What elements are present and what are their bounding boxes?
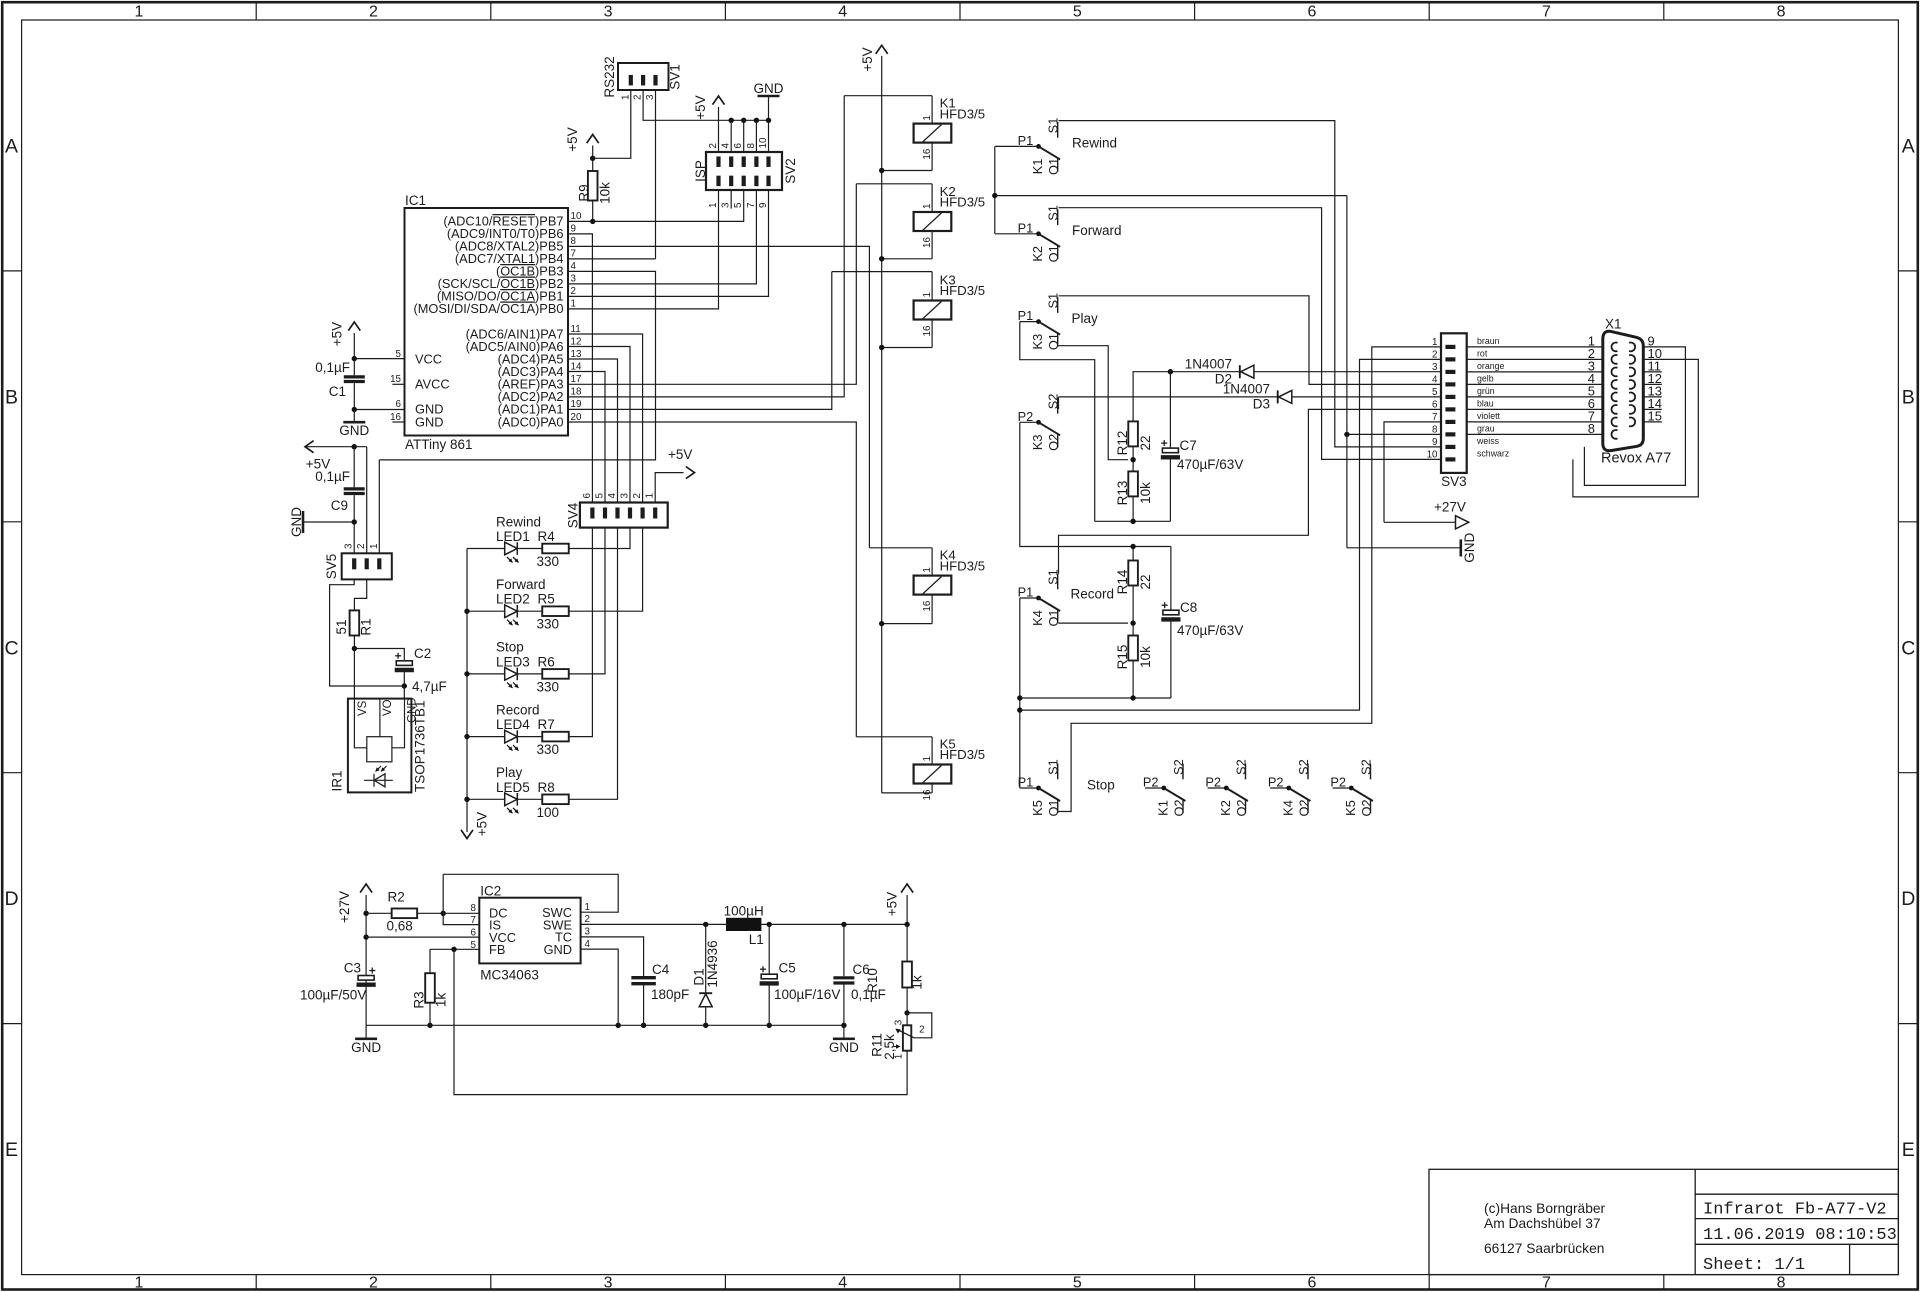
wire ISP pin1 to PB0: [568, 190, 719, 309]
svg-text:1: 1: [1432, 337, 1437, 348]
svg-text:+5V: +5V: [860, 47, 875, 71]
svg-text:D: D: [4, 888, 18, 910]
svg-text:5: 5: [471, 940, 477, 951]
svg-text:D3: D3: [1253, 397, 1270, 412]
wire Play S1 to SV3 pin4: [1059, 296, 1442, 385]
capacitor C4 180pF: [631, 976, 656, 979]
IR1 detector box: [367, 737, 392, 762]
svg-text:GND: GND: [544, 942, 572, 957]
svg-text:AVCC: AVCC: [415, 377, 450, 392]
svg-text:GND: GND: [754, 81, 784, 96]
svg-text:R15: R15: [1115, 645, 1130, 670]
svg-text:1k: 1k: [434, 993, 449, 1008]
resistor R6 330: [542, 669, 569, 679]
svg-text:4: 4: [607, 493, 618, 499]
svg-text:P2: P2: [1143, 775, 1159, 790]
resistor R2 0,68: [366, 912, 391, 914]
relay contact K3 Play pole1: [1020, 321, 1039, 323]
svg-text:RS232: RS232: [602, 56, 617, 97]
svg-text:8: 8: [746, 143, 757, 149]
node D2 net C7: [1168, 369, 1173, 374]
svg-text:11.06.2019 08:10:53: 11.06.2019 08:10:53: [1703, 1226, 1897, 1245]
node D1 bottom: [703, 1023, 708, 1028]
svg-text:9: 9: [1432, 437, 1437, 448]
svg-text:P2: P2: [1268, 775, 1284, 790]
svg-text:C1: C1: [329, 384, 346, 399]
relay coil K4 HFD3/5: [914, 576, 952, 595]
svg-text:10: 10: [758, 137, 769, 148]
svg-text:O2: O2: [1296, 799, 1311, 816]
svg-text:16: 16: [922, 237, 933, 248]
svg-text:R4: R4: [538, 529, 556, 544]
svg-text:HFD3/5: HFD3/5: [940, 106, 985, 121]
wire X1 pin9 loop to SV3 pin9 net: [1584, 347, 1685, 486]
node C6 bottom: [841, 1023, 846, 1028]
svg-text:3: 3: [585, 927, 591, 938]
svg-text:S2: S2: [1233, 759, 1248, 775]
svg-text:16: 16: [922, 600, 933, 611]
svg-text:violett: violett: [1477, 411, 1501, 421]
svg-text:2: 2: [356, 544, 367, 549]
svg-text:1N4936: 1N4936: [705, 940, 720, 987]
resistor R15 10k: [1128, 636, 1138, 661]
relay contact K4 pole2 stub: [1270, 787, 1289, 789]
node LED bus LED4: [464, 734, 469, 739]
svg-text:P2: P2: [1330, 775, 1346, 790]
svg-text:K4: K4: [1030, 610, 1045, 626]
wire PB6 to SV4 pin6: [568, 234, 592, 503]
connector SV4: [580, 503, 668, 528]
wire P1 bus K1-K2: [994, 146, 996, 233]
svg-text:grün: grün: [1477, 386, 1495, 396]
svg-text:13: 13: [571, 349, 582, 360]
svg-text:GND: GND: [406, 697, 418, 723]
diode D3 1N4007: [1059, 396, 1442, 398]
svg-text:IC2: IC2: [480, 884, 501, 899]
svg-text:3: 3: [894, 1019, 905, 1025]
svg-text:1k: 1k: [910, 975, 925, 990]
svg-text:Forward: Forward: [1072, 223, 1122, 238]
svg-text:C8: C8: [1180, 600, 1197, 615]
svg-text:16: 16: [922, 789, 933, 800]
IC IC2 MC34063: [479, 898, 580, 964]
wire P1 K1 stub: [995, 145, 1020, 147]
wire +5V corner to SV5 pin2: [366, 447, 368, 554]
svg-text:Play: Play: [496, 765, 523, 780]
node LED bus LED2: [464, 609, 469, 614]
svg-text:O1: O1: [1046, 158, 1061, 175]
svg-text:ISP: ISP: [693, 160, 708, 182]
svg-text:SV4: SV4: [566, 502, 581, 528]
wire SV3 pin8 grau: [1347, 433, 1441, 435]
supply +5V arrow at C1: [353, 333, 355, 359]
svg-text:X1: X1: [1605, 317, 1622, 332]
IC1 pin 16 stub: [392, 421, 404, 423]
IC1 overlines: [492, 215, 535, 303]
connector X1 Revox A77 outline: [1603, 331, 1644, 450]
LED anode bus +5V: [466, 549, 468, 833]
svg-text:8: 8: [1588, 421, 1595, 436]
IR1 light arrows: [376, 766, 382, 772]
node R14-R15: [1132, 586, 1134, 636]
trimmer R11 2,5k: [906, 1013, 908, 1025]
wire P1 K2 stub: [995, 233, 1020, 235]
svg-text:1: 1: [585, 902, 590, 913]
svg-text:3: 3: [620, 493, 631, 499]
svg-text:K5: K5: [1030, 800, 1045, 816]
node D1 top: [703, 922, 708, 927]
capacitor C7 470uF/63V: [1169, 372, 1171, 448]
wire Play P1 to C7 rail: [1020, 322, 1095, 522]
ground under C3: [355, 1038, 377, 1041]
svg-text:2: 2: [633, 95, 644, 100]
svg-text:R12: R12: [1115, 431, 1130, 456]
X1 pin arcs right: [1629, 343, 1635, 352]
wire PA7 to SV4 pin2: [568, 334, 643, 503]
wire P1 bus to SV3 pin8 riser: [995, 195, 1347, 197]
svg-text:66127 Saarbrücken: 66127 Saarbrücken: [1484, 1241, 1604, 1256]
node C6 top: [841, 922, 846, 927]
node SV3 pin8 P-bus: [1344, 432, 1349, 437]
svg-text:51: 51: [334, 619, 349, 634]
wire FB pin5: [430, 948, 479, 950]
svg-text:1: 1: [134, 4, 143, 21]
svg-text:O1: O1: [1046, 245, 1061, 262]
svg-text:E: E: [5, 1139, 18, 1161]
svg-text:7: 7: [571, 249, 576, 260]
svg-text:(ADC0)PA0: (ADC0)PA0: [498, 414, 564, 429]
title block: [1429, 1169, 1898, 1274]
wire Play O1 to R12-R13 node: [1059, 346, 1129, 460]
inductor L1 100uH: [726, 918, 761, 931]
svg-text:100µF/16V: 100µF/16V: [774, 987, 840, 1002]
svg-text:VS: VS: [357, 700, 369, 716]
svg-text:10k: 10k: [1138, 646, 1153, 668]
svg-text:R5: R5: [538, 592, 555, 607]
R11 wiper loop: [907, 1013, 932, 1038]
node VCC tap: [363, 934, 368, 939]
svg-text:1: 1: [369, 544, 380, 549]
svg-text:R14: R14: [1115, 569, 1130, 594]
node +5V bus K4: [879, 621, 884, 626]
svg-text:S2: S2: [1171, 759, 1186, 775]
wire PB7/RESET to ISP pin5: [568, 190, 744, 221]
svg-text:Revox A77: Revox A77: [1601, 451, 1671, 467]
svg-text:6: 6: [1432, 399, 1438, 410]
resistor R4 330: [542, 544, 569, 554]
svg-text:100: 100: [537, 805, 560, 820]
wire PA0 to K5: [568, 422, 856, 737]
svg-text:HFD3/5: HFD3/5: [940, 558, 985, 573]
svg-text:17: 17: [571, 374, 582, 385]
resistor R5 330: [542, 606, 569, 616]
svg-text:7: 7: [471, 915, 476, 926]
svg-text:grau: grau: [1477, 423, 1495, 433]
ground under C1: [353, 410, 355, 423]
R11 wiper arrow: [897, 1029, 915, 1038]
svg-text:O2: O2: [1171, 799, 1186, 816]
svg-text:C9: C9: [331, 498, 348, 513]
wire Record O1 to R14-R15 node: [1059, 622, 1129, 624]
supply +5V arrow at R9: [592, 146, 594, 159]
connector SV2 ISP: [706, 152, 782, 190]
wire L1 output: [761, 923, 907, 925]
R11 small arrow: [893, 1046, 899, 1048]
node K4 P1 H1: [1017, 707, 1022, 712]
svg-text:4: 4: [585, 939, 591, 950]
svg-text:GND: GND: [829, 1040, 859, 1055]
svg-text:LED4: LED4: [496, 717, 530, 732]
svg-text:8: 8: [1777, 1274, 1786, 1291]
node R10 R11 wiper: [904, 1010, 909, 1015]
X1 to SV3 wires 1-8: [1467, 346, 1602, 348]
wire PB4 row: [568, 258, 656, 260]
svg-text:330: 330: [537, 617, 560, 632]
svg-text:6: 6: [1307, 4, 1316, 21]
svg-text:E: E: [1902, 1139, 1915, 1161]
LED LED3 Stop: [467, 673, 505, 675]
svg-text:4: 4: [838, 4, 847, 21]
svg-text:GND: GND: [415, 414, 443, 429]
svg-text:IC1: IC1: [405, 193, 426, 208]
node R13 bottom: [1130, 519, 1135, 524]
connector SV1 RS232: [618, 63, 669, 90]
svg-text:8: 8: [1432, 424, 1438, 435]
wire SV5 pin2 to R1: [354, 579, 366, 610]
svg-text:D: D: [1901, 888, 1915, 910]
svg-text:4: 4: [571, 261, 577, 272]
svg-text:GND: GND: [339, 423, 369, 438]
LED LED4 Record: [467, 736, 505, 738]
svg-text:P1: P1: [1018, 775, 1034, 790]
supply +27V arrow at C3: [365, 895, 367, 1025]
svg-text:+5V: +5V: [884, 892, 899, 916]
relay contact K1 pole2 stub: [1145, 787, 1164, 789]
svg-text:HFD3/5: HFD3/5: [940, 195, 985, 210]
X1 right pin stubs: [1643, 371, 1662, 373]
supply +5V arrow left: [307, 446, 367, 448]
svg-text:20: 20: [571, 412, 582, 423]
supply +5V bus arrow (relays): [881, 56, 883, 793]
svg-text:Record: Record: [1071, 587, 1115, 602]
svg-text:470µF/63V: 470µF/63V: [1177, 457, 1243, 472]
wire X1 pin10 loop to SV3 pin10 net: [1573, 359, 1698, 497]
svg-text:R6: R6: [538, 654, 555, 669]
svg-text:16: 16: [390, 412, 401, 423]
wire ISP pin9 to PB1: [568, 190, 769, 296]
node C5 bottom: [767, 1023, 772, 1028]
svg-text:B: B: [5, 386, 18, 408]
supply +5V arrow at R10: [906, 895, 908, 924]
resistor R1 51: [350, 610, 360, 635]
rail C7 R13 bottom: [1095, 520, 1171, 522]
svg-text:1: 1: [922, 115, 933, 120]
svg-text:19: 19: [571, 399, 582, 410]
svg-text:5: 5: [1073, 4, 1082, 21]
svg-text:16: 16: [922, 325, 933, 336]
wire IC2 GND pin4: [581, 949, 619, 1025]
wire P-bus down to GND: [1346, 196, 1348, 548]
svg-text:P2: P2: [1018, 409, 1034, 424]
LED LED5 Play: [467, 798, 505, 800]
svg-text:GND: GND: [289, 507, 304, 537]
svg-text:7: 7: [1542, 1274, 1551, 1291]
svg-text:orange: orange: [1477, 361, 1504, 371]
svg-text:6: 6: [733, 143, 744, 149]
node P1 bus: [992, 193, 997, 198]
svg-text:5: 5: [733, 202, 744, 208]
node FB riser: [451, 947, 456, 952]
IR1 pins: [354, 699, 404, 748]
supply +5V arrow at ISP: [718, 107, 720, 152]
wire SV3 pin7 to +27V: [1384, 422, 1441, 522]
supply +5V arrow at SV4 pin1: [655, 473, 683, 503]
GND bus nodes: [729, 118, 734, 123]
svg-text:3: 3: [604, 4, 613, 21]
svg-text:1: 1: [645, 493, 656, 498]
svg-text:C2: C2: [414, 646, 431, 661]
wire node to C2: [354, 649, 404, 661]
wire SV4 pin6 to R7: [569, 528, 593, 737]
svg-text:GND: GND: [1462, 533, 1477, 563]
svg-text:S1: S1: [1046, 293, 1061, 309]
svg-text:2: 2: [369, 1274, 378, 1291]
wire K2 S1 to SV3 pin10: [1059, 208, 1442, 460]
capacitor C5 100uF/16V: [768, 924, 770, 974]
node C5 top: [767, 922, 772, 927]
relay contact K4 Record: [1020, 597, 1039, 599]
wire SV4 pin5 to R6: [569, 528, 605, 674]
svg-text:R9: R9: [576, 184, 591, 201]
connector SV3: [1441, 333, 1467, 473]
svg-text:1: 1: [922, 567, 933, 572]
wire DC IS SWC loop: [443, 874, 479, 924]
node R9 bottom on RESET net: [590, 219, 595, 224]
node DC pin: [441, 911, 446, 916]
svg-text:S1: S1: [1046, 118, 1061, 134]
svg-text:22: 22: [1138, 574, 1153, 589]
wire K4/K5 P1 to SV3 pin2: [1020, 359, 1441, 710]
node C9 top: [352, 444, 357, 449]
wire PA6 to SV4 pin3: [568, 347, 630, 503]
wire VCC pin6: [366, 936, 479, 938]
node GND-C1: [352, 407, 357, 412]
svg-text:C7: C7: [1180, 438, 1197, 453]
svg-text:Am Dachshübel 37: Am Dachshübel 37: [1484, 1216, 1601, 1231]
svg-text:1: 1: [708, 203, 719, 208]
svg-text:B: B: [1902, 386, 1915, 408]
svg-text:VCC: VCC: [415, 351, 442, 366]
GND rail bottom: [366, 1024, 844, 1026]
wire SV4 pin3 to R4: [569, 528, 630, 549]
svg-text:1: 1: [922, 292, 933, 297]
wires ISP top pins to GND bus: [730, 120, 732, 152]
svg-text:18: 18: [571, 387, 582, 398]
svg-text:ATTiny 861: ATTiny 861: [405, 437, 473, 452]
svg-text:9: 9: [758, 203, 769, 208]
svg-text:1: 1: [620, 95, 631, 100]
svg-text:7: 7: [1432, 412, 1437, 423]
node R9 top: [590, 156, 595, 161]
wire SWE output line: [581, 923, 726, 925]
svg-text:S1: S1: [1046, 205, 1061, 221]
svg-text:470µF/63V: 470µF/63V: [1177, 623, 1243, 638]
relay contact K5 Stop: [1020, 787, 1039, 789]
relay contact K3 Play pole2: [1020, 421, 1039, 423]
svg-text:R7: R7: [538, 717, 555, 732]
svg-text:(c)Hans Borngräber: (c)Hans Borngräber: [1484, 1201, 1606, 1216]
node +5V bus K1: [879, 168, 884, 173]
resistor R14 22: [1132, 547, 1134, 561]
diode D2 1N4007: [1133, 372, 1441, 422]
svg-text:MC34063: MC34063: [480, 968, 539, 983]
IR receiver IR1 TSOP1736TB1: [348, 699, 412, 793]
svg-text:R2: R2: [388, 890, 405, 905]
svg-text:Rewind: Rewind: [496, 514, 541, 529]
capacitor C6 0,1uF: [843, 924, 845, 976]
feedback rail: [454, 949, 907, 1094]
svg-text:330: 330: [537, 679, 560, 694]
svg-text:2: 2: [1432, 349, 1437, 360]
svg-text:+5V: +5V: [565, 127, 580, 151]
node C4 bottom: [641, 1023, 646, 1028]
node +5V bus K2: [879, 256, 884, 261]
svg-text:+5V: +5V: [474, 812, 489, 836]
svg-text:R1: R1: [358, 618, 373, 635]
svg-text:C3: C3: [344, 961, 361, 976]
svg-text:+5V: +5V: [329, 322, 344, 346]
svg-text:2: 2: [369, 4, 378, 21]
capacitor C9: [353, 447, 355, 488]
svg-text:C4: C4: [652, 962, 670, 977]
node LED bus LED3: [464, 671, 469, 676]
svg-text:6: 6: [396, 399, 402, 410]
relay coil K5 HFD3/5: [914, 765, 952, 784]
node R12-R13: [1132, 446, 1134, 471]
svg-text:10k: 10k: [597, 182, 612, 204]
svg-text:1N4007: 1N4007: [1223, 382, 1270, 397]
wire PA5 to SV4 pin4: [568, 359, 618, 503]
wire ISP pin7 to PB2: [568, 190, 756, 284]
wire PA2 to K1: [568, 96, 844, 397]
node LED bus LED5: [464, 797, 469, 802]
svg-text:2: 2: [632, 493, 643, 498]
svg-text:5: 5: [595, 493, 606, 499]
svg-text:+27V: +27V: [1434, 500, 1466, 515]
svg-text:R3: R3: [411, 991, 426, 1008]
wire GND pin6 to C1: [354, 409, 404, 411]
svg-text:IR1: IR1: [329, 770, 344, 791]
svg-text:22: 22: [1138, 435, 1153, 450]
svg-text:Forward: Forward: [496, 577, 546, 592]
svg-text:O2: O2: [1359, 799, 1374, 816]
svg-text:0,68: 0,68: [387, 919, 413, 934]
svg-text:O2: O2: [1234, 799, 1249, 816]
svg-text:gelb: gelb: [1477, 373, 1494, 383]
node R14 top: [1130, 544, 1135, 549]
svg-text:O1: O1: [1046, 799, 1061, 816]
svg-text:SV3: SV3: [1441, 474, 1467, 489]
rail R15 C8 bottom: [1020, 697, 1171, 699]
svg-text:K2: K2: [1030, 246, 1045, 262]
svg-text:A: A: [1902, 135, 1915, 157]
svg-text:LED1: LED1: [496, 529, 530, 544]
node K4 P1 rail: [1017, 695, 1022, 700]
node R3 bottom: [427, 1023, 432, 1028]
wire ISP pin3 stub: [730, 190, 732, 209]
svg-text:R10: R10: [865, 968, 880, 993]
svg-text:C5: C5: [779, 961, 796, 976]
